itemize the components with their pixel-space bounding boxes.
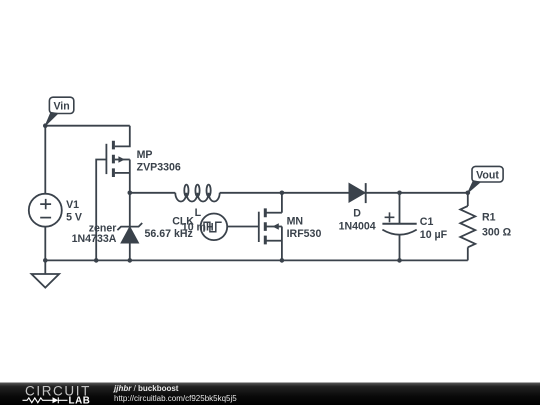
- footer bar: [0, 383, 540, 405]
- wire bottom rail (ground net): [45, 259, 468, 261]
- transistor MN body arrow: [272, 223, 278, 230]
- footer logo squiggle wire: [23, 397, 68, 403]
- clock source CLK 56.67 kHz: [201, 214, 228, 241]
- svg-text:jjhbr / buckboost: jjhbr / buckboost: [113, 384, 179, 393]
- node Vout: [466, 191, 471, 196]
- node Vin junction: [43, 123, 48, 128]
- diode D cathode bar: [365, 183, 367, 203]
- ground symbol: [32, 274, 60, 288]
- svg-text:300 Ω: 300 Ω: [482, 227, 512, 239]
- svg-text:http://circuitlab.com/cf925bk5: http://circuitlab.com/cf925bk5kq5j5: [114, 394, 237, 403]
- capacitor C1 curved bottom plate: [382, 230, 416, 235]
- footer logo diode glyph: [53, 397, 59, 403]
- wire CLK to MN gate: [227, 226, 258, 228]
- wire zener anode to rail: [129, 243, 131, 261]
- wire MP drain down to node: [129, 160, 131, 193]
- wire R1 bottom lead: [467, 247, 469, 260]
- transistor MN gate bar: [258, 212, 260, 242]
- svg-text:1N4733A: 1N4733A: [72, 233, 117, 245]
- svg-text:10 µF: 10 µF: [420, 229, 448, 241]
- zener diode 1N4733A triangle: [121, 227, 138, 243]
- svg-text:CLK: CLK: [172, 215, 194, 227]
- wire top rail Vin node to MP source: [45, 125, 130, 127]
- wire zener cathode up to node: [129, 193, 131, 227]
- svg-text:5 V: 5 V: [66, 212, 82, 224]
- node MN source at rail: [280, 258, 285, 263]
- svg-text:LAB: LAB: [69, 395, 91, 405]
- wire C1 top lead: [399, 193, 401, 224]
- wire MP gate to ground rail: [96, 160, 105, 261]
- flag Vout box: [472, 166, 503, 182]
- zener diode cathode bar with bent ends: [117, 223, 142, 230]
- svg-text:Vin: Vin: [53, 101, 69, 113]
- svg-text:1N4004: 1N4004: [339, 220, 376, 232]
- wire MP drain terminal: [115, 172, 130, 174]
- svg-text:56.67 kHz: 56.67 kHz: [145, 228, 193, 240]
- svg-text:V1: V1: [66, 199, 79, 211]
- node V1 bottom rail: [43, 258, 48, 263]
- wire MP source stub from top rail: [115, 126, 130, 147]
- node MP drain / inductor / zener: [128, 191, 133, 196]
- wire node to inductor: [130, 192, 176, 194]
- wire MN source terminal: [266, 240, 282, 242]
- capacitor C1 plus sign: [385, 212, 395, 222]
- wire C1 bottom lead: [399, 235, 401, 261]
- svg-text:R1: R1: [482, 212, 496, 224]
- flag Vin box: [49, 97, 73, 113]
- diode D 1N4004 triangle: [349, 184, 365, 202]
- wire Vin node down to V1 top: [44, 126, 46, 194]
- node zener at rail: [128, 258, 133, 263]
- resistor R1 300 ohm zigzag: [460, 206, 475, 247]
- transistor MP ZVP3306 channel bars: [112, 141, 115, 177]
- flag Vin pointer: [45, 112, 58, 125]
- flag Vout pointer: [468, 181, 480, 193]
- svg-text:Vout: Vout: [476, 169, 499, 181]
- svg-text:D: D: [353, 208, 361, 220]
- svg-text:MP: MP: [137, 149, 153, 161]
- node MP gate at rail: [94, 258, 99, 263]
- wire R1 top lead: [467, 193, 469, 206]
- transistor MP body arrow: [118, 156, 124, 163]
- node C1 top: [397, 191, 402, 196]
- svg-text:C1: C1: [420, 216, 434, 228]
- wire inductor to Vout node (main line): [220, 192, 468, 194]
- svg-text:IRF530: IRF530: [287, 228, 322, 240]
- inductor L 10 mH coil: [175, 193, 219, 202]
- voltage source V1 5 V: [29, 194, 62, 227]
- wire MN body terminal: [266, 226, 282, 228]
- transistor MN IRF530 channel bars: [264, 208, 267, 244]
- wire ground stem: [44, 260, 46, 274]
- node MN drain: [280, 191, 285, 196]
- capacitor C1 top plate: [382, 223, 416, 225]
- wire MN drain terminal: [266, 212, 282, 214]
- wire V1 bottom to bottom rail: [44, 227, 46, 261]
- wire MN drain up to main line: [281, 193, 283, 213]
- svg-text:L: L: [195, 207, 202, 219]
- node C1 bottom at rail: [397, 258, 402, 263]
- transistor MP gate bar: [105, 144, 107, 174]
- svg-text:MN: MN: [287, 215, 303, 227]
- wire MN source/body down to rail: [281, 227, 283, 261]
- svg-text:ZVP3306: ZVP3306: [137, 161, 181, 173]
- wire MP body terminal: [115, 159, 130, 161]
